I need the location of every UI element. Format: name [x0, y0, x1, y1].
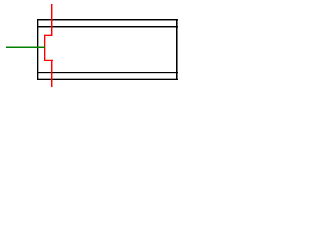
wire: red trace lower vertical segment: [51, 60, 53, 87]
wire: red trace upper vertical segment: [51, 4, 53, 36]
wire: red trace lower jog horizontal: [44, 59, 53, 61]
connector J1 outline: inner bottom wall: [37, 72, 178, 74]
wire: red trace middle vertical segment: [44, 35, 46, 61]
wire: red trace upper jog horizontal: [44, 34, 51, 36]
connector J1 outline: outer top wall: [37, 19, 178, 21]
connector J1 outline: right wall: [176, 19, 178, 80]
connector J1 outline: outer bottom wall: [37, 78, 178, 80]
wire: green net segment: [6, 46, 45, 48]
connector J1 outline: left wall: [37, 19, 39, 80]
connector J1 outline: inner top wall: [37, 26, 178, 28]
